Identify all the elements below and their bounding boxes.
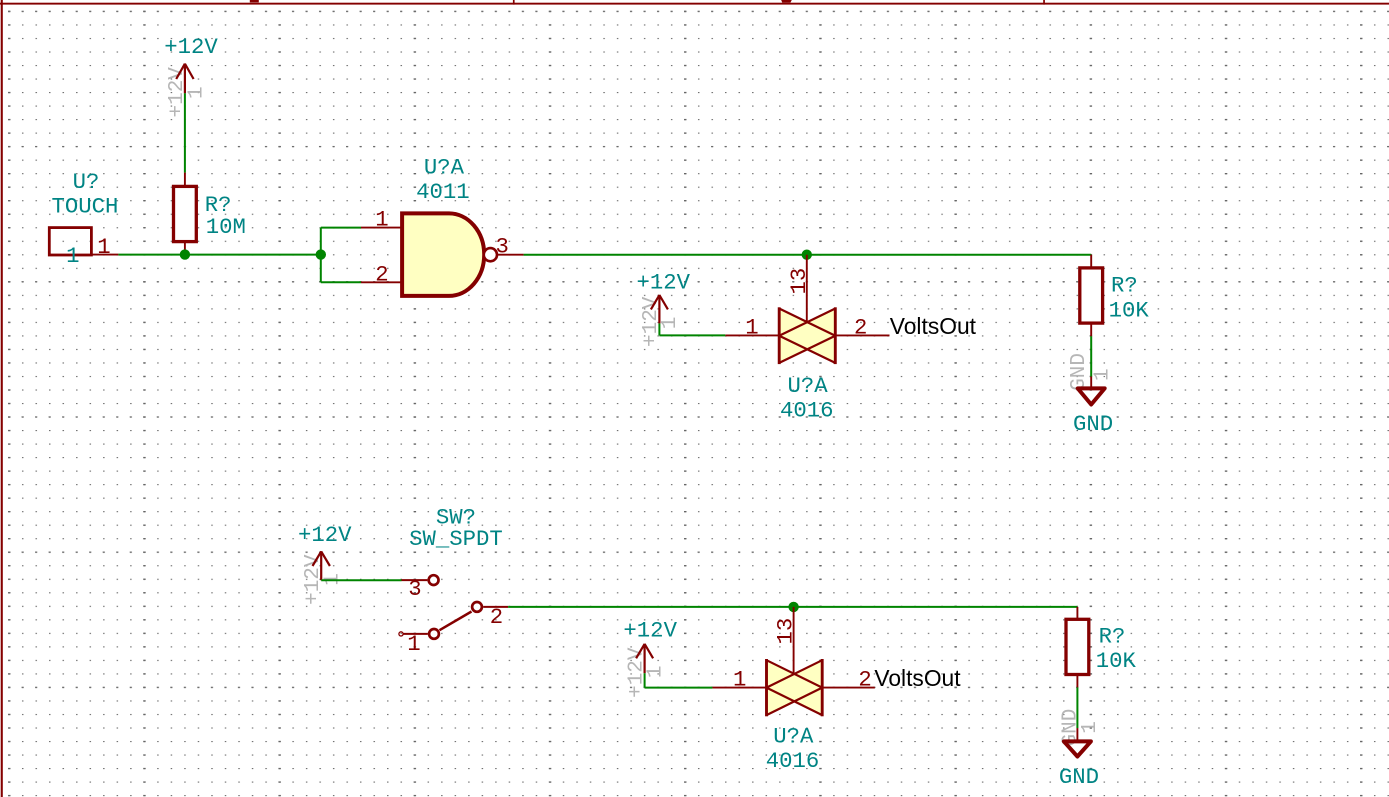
svg-text:TOUCH: TOUCH [51, 194, 118, 220]
analog switch (bottom) pin 1 [712, 687, 766, 689]
sheet frame column tick [1043, 0, 1045, 5]
svg-text:1: 1 [745, 314, 758, 340]
sheet frame left line [1, 0, 3, 797]
svg-text:3: 3 [496, 234, 509, 260]
svg-text:1: 1 [645, 665, 668, 678]
svg-text:+12V: +12V [298, 522, 352, 548]
switch SW? pin 1 open-end circle [399, 632, 403, 636]
junction at 4016 (bottom) control pin [788, 602, 798, 612]
wire PWR2 to 4016 pin 1 [659, 334, 725, 336]
nand gate U?A 4011 pin 1 [361, 227, 402, 229]
nand gate U?A 4011 pin 2 [361, 281, 402, 283]
svg-text:1: 1 [375, 207, 388, 233]
svg-text:1: 1 [733, 667, 746, 693]
sheet frame column number 2 (clipped) [250, 0, 259, 2]
svg-text:1: 1 [185, 86, 208, 99]
svg-text:GND: GND [1068, 353, 1091, 391]
svg-text:10M: 10M [206, 214, 246, 240]
svg-text:4016: 4016 [780, 397, 834, 423]
junction at NAND input branch [316, 249, 326, 259]
wire NAND output to R2 [524, 254, 1092, 256]
svg-text:10K: 10K [1096, 648, 1137, 674]
svg-text:U?A: U?A [773, 723, 814, 749]
wire PWR4 to 4016 pin 1 [645, 687, 713, 689]
svg-text:U?: U? [73, 169, 100, 195]
analog switch (top) pin 1 [725, 334, 779, 336]
svg-text:1: 1 [66, 243, 79, 269]
power +12V PWR4 symbol arrow [636, 644, 653, 674]
svg-text:2: 2 [858, 667, 871, 693]
analog switch (top) pin 2 [835, 334, 889, 336]
wire touch to NAND input node [118, 254, 320, 256]
switch SW? pin 3 [402, 579, 428, 581]
touch sensor U1 pin 1 [91, 254, 118, 256]
analog switch U?A 4016 (top) body fill [779, 309, 835, 363]
wire switch to R3 [508, 606, 1077, 608]
svg-text:R?: R? [1099, 623, 1126, 649]
wire to NAND pin 1 [321, 227, 361, 229]
analog switch U?A 4016 (top) body outline [779, 307, 835, 364]
resistor R1 10M [174, 173, 197, 255]
ground GND1 symbol [1078, 377, 1105, 405]
resistor R2 10K (top right) [1080, 255, 1103, 337]
svg-text:1: 1 [1079, 721, 1102, 734]
svg-text:10K: 10K [1109, 297, 1150, 323]
power +12V PWR2 symbol arrow [651, 295, 668, 324]
svg-text:U?A: U?A [424, 155, 465, 181]
power +12V PWR3 symbol arrow [313, 551, 330, 580]
switch SW? pin 2 [483, 606, 508, 608]
wire R2 to GND1 [1090, 336, 1092, 376]
switch SW? lever [440, 612, 472, 631]
power +12V PWR1 symbol arrow [176, 64, 193, 94]
resistor R3 10K (bottom right) [1066, 607, 1089, 688]
ground GND2 symbol [1064, 728, 1091, 756]
wire PWR4 vertical [644, 673, 646, 687]
analog switch (bottom) pin 2 [822, 687, 875, 689]
wire PWR3 to switch pin 3 [321, 579, 401, 581]
svg-text:13: 13 [786, 268, 812, 295]
svg-text:2: 2 [490, 604, 503, 630]
switch SW? throw contact 3 [429, 575, 439, 585]
svg-text:VoltsOut: VoltsOut [874, 665, 961, 691]
svg-text:VoltsOut: VoltsOut [890, 313, 977, 339]
svg-text:2: 2 [854, 314, 867, 340]
svg-text:GND: GND [1073, 411, 1113, 437]
svg-text:4011: 4011 [416, 179, 470, 205]
svg-text:13: 13 [773, 618, 799, 645]
svg-text:+12V: +12V [637, 269, 691, 295]
analog switch U?A 4016 (bottom) pin 13 [793, 607, 795, 674]
svg-text:3: 3 [408, 576, 421, 602]
svg-text:1: 1 [97, 234, 110, 260]
junction at 4016 control pin [802, 250, 812, 260]
analog switch U?A 4016 (bottom) body fill [767, 660, 823, 715]
wire NAND input branch vertical [320, 228, 322, 283]
switch SW? common contact [472, 602, 482, 612]
sheet frame top line [0, 3, 1389, 5]
svg-text:GND: GND [1059, 764, 1099, 790]
sheet frame column tick [513, 0, 515, 5]
svg-text:1: 1 [659, 317, 682, 330]
svg-text:1: 1 [1092, 368, 1115, 381]
wire PWR2 vertical [658, 323, 660, 335]
junction at R1 bottom [180, 249, 190, 259]
svg-text:U?A: U?A [788, 373, 829, 399]
switch SW? throw contact 1 [429, 629, 439, 639]
svg-text:SW_SPDT: SW_SPDT [409, 526, 503, 552]
svg-text:1: 1 [407, 631, 420, 657]
sheet frame column number 3 (clipped) [781, 0, 792, 3]
wire R3 to GND2 [1076, 687, 1078, 728]
nand gate U?A 4011 pin 3 [496, 254, 523, 256]
analog switch U?A 4016 (top) pin 13 [806, 255, 808, 322]
svg-text:2: 2 [375, 261, 388, 287]
nand gate output inversion bubble [484, 248, 497, 261]
analog switch U?A 4016 (bottom) body outline [767, 659, 823, 716]
svg-text:+12V: +12V [164, 34, 218, 60]
wire from +12V to R1 [184, 93, 186, 172]
svg-text:R?: R? [1111, 272, 1138, 298]
svg-text:+12V: +12V [623, 618, 677, 644]
wire to NAND pin 2 [321, 281, 361, 283]
touch sensor U1 body [49, 228, 91, 255]
svg-text:4016: 4016 [766, 748, 820, 774]
switch SW? pin 1 [403, 633, 428, 635]
nand gate U?A 4011 body [402, 213, 484, 296]
